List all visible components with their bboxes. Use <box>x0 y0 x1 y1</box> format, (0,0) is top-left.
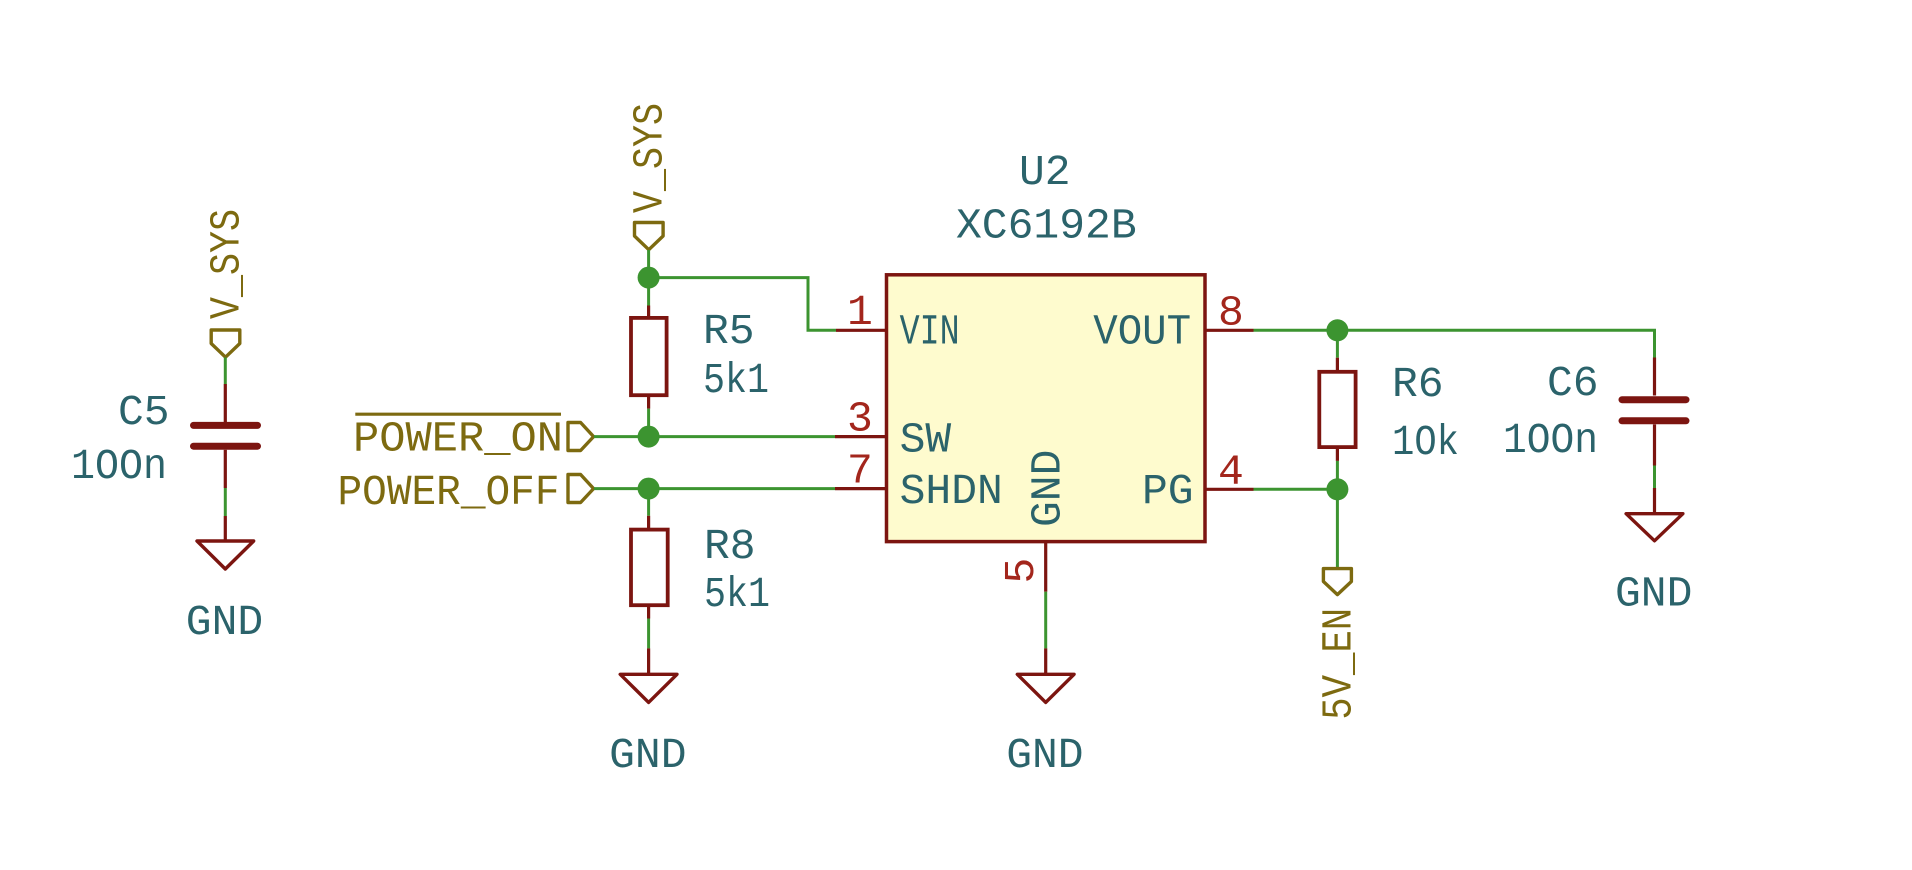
wire R6 to PG rail <box>1336 461 1339 489</box>
wire POWER_ON to SW pin <box>594 435 835 438</box>
junction at V_SYS/R5 <box>638 267 660 289</box>
wire POWER_OFF to SHDN pin <box>594 487 835 490</box>
junction at POWER_OFF/R8 <box>638 478 660 500</box>
junction at PG/R6 <box>1326 478 1348 500</box>
svg-text:5k1: 5k1 <box>704 570 770 619</box>
svg-text:V_SYS: V_SYS <box>202 209 251 319</box>
pin number 4 <box>1218 448 1244 497</box>
value 100n (C6) <box>1503 416 1598 465</box>
net label V_SYS (left) <box>202 209 251 319</box>
svg-text:GND: GND <box>186 598 263 647</box>
net label POWER_OFF <box>338 468 560 517</box>
svg-text:C5: C5 <box>118 388 170 437</box>
ground symbol (C5) <box>197 516 254 569</box>
svg-text:POWER_OFF: POWER_OFF <box>338 468 560 517</box>
svg-text:VOUT: VOUT <box>1093 307 1191 356</box>
ground symbol (C6) <box>1626 488 1683 541</box>
svg-text:5k1: 5k1 <box>703 356 769 405</box>
junction at POWER_ON/R5 <box>638 426 660 448</box>
pin name VOUT <box>1093 307 1191 356</box>
pin number 8 <box>1218 289 1244 338</box>
pin 8 VOUT stub <box>1205 329 1254 332</box>
net flag POWER_OFF <box>568 475 594 503</box>
pin number 7 <box>847 446 873 495</box>
text GND (R8) <box>609 731 686 780</box>
overbar POWER_ON <box>355 413 561 416</box>
pin 1 VIN stub <box>836 329 887 332</box>
value 100n (C5) <box>71 442 167 491</box>
wire junction to 5V_EN flag <box>1336 489 1339 568</box>
wire V_SYS flag to C5 <box>224 358 227 385</box>
text GND (C6) <box>1615 570 1692 619</box>
svg-text:PG: PG <box>1142 467 1194 516</box>
wire junction to R6 <box>1336 330 1339 357</box>
capacitor C5 <box>194 384 258 488</box>
svg-text:1Ok: 1Ok <box>1392 418 1459 467</box>
net flag V_SYS (middle) <box>635 223 664 250</box>
pin name PG <box>1142 467 1194 516</box>
net label 5V_EN <box>1315 608 1364 720</box>
net label V_SYS (middle) <box>626 103 675 213</box>
value 5k1 (R8) <box>704 570 770 619</box>
svg-text:1: 1 <box>847 288 873 337</box>
wire C5 to GND <box>224 488 227 516</box>
svg-text:U2: U2 <box>1019 148 1071 197</box>
svg-text:R6: R6 <box>1392 360 1444 409</box>
svg-text:5: 5 <box>997 558 1046 584</box>
svg-text:R5: R5 <box>703 307 755 356</box>
svg-text:3: 3 <box>847 394 873 443</box>
net label POWER_ON <box>353 414 563 463</box>
ground symbol (R8) <box>620 648 677 702</box>
svg-text:4: 4 <box>1218 448 1244 497</box>
pin number 3 <box>847 394 873 443</box>
wire R5 to POWER_ON rail <box>647 409 650 437</box>
svg-text:VIN: VIN <box>900 307 960 356</box>
pin 5 GND stub <box>1044 542 1047 592</box>
value 5k1 (R5) <box>703 356 769 405</box>
net flag 5V_EN <box>1323 569 1351 595</box>
pin 7 SHDN stub <box>835 487 887 490</box>
svg-text:SW: SW <box>900 416 952 465</box>
label C6 <box>1547 359 1599 408</box>
pin 4 PG stub <box>1205 488 1254 491</box>
wire junction to pin1 corner <box>649 278 836 331</box>
label C5 <box>118 388 170 437</box>
svg-text:R8: R8 <box>704 522 756 571</box>
svg-text:1OOn: 1OOn <box>71 442 167 491</box>
capacitor C6 <box>1622 358 1686 466</box>
resistor R8 <box>631 516 668 619</box>
svg-text:XC6192B: XC6192B <box>956 202 1137 251</box>
junction at VOUT/R6 <box>1326 319 1348 341</box>
net flag POWER_ON <box>568 423 594 451</box>
pin name SHDN <box>900 467 1003 516</box>
text GND (pin5) <box>1006 731 1083 780</box>
label U2 <box>1019 148 1071 197</box>
svg-text:GND: GND <box>609 731 686 780</box>
wire VOUT to C6 <box>1254 330 1655 357</box>
svg-text:GND: GND <box>1006 731 1083 780</box>
svg-text:GND: GND <box>1615 570 1692 619</box>
wire pin5 to GND <box>1044 592 1047 649</box>
pin number 1 <box>847 288 873 337</box>
wire R8 to GND <box>647 619 650 649</box>
resistor R6 <box>1319 358 1355 461</box>
svg-text:GND: GND <box>1023 450 1072 527</box>
pin name SW <box>900 416 952 465</box>
svg-text:1OOn: 1OOn <box>1503 416 1598 465</box>
wire C6 to GND <box>1653 466 1656 489</box>
resistor R5 <box>631 306 667 409</box>
wire pin4 to R6 junction <box>1254 488 1338 491</box>
svg-text:SHDN: SHDN <box>900 467 1003 516</box>
net flag V_SYS (left) <box>211 330 240 357</box>
pin name VIN <box>900 307 960 356</box>
IC U2 XC6192B body <box>887 275 1206 542</box>
value 10k (R6) <box>1392 418 1459 467</box>
value XC6192B <box>956 202 1137 251</box>
label R6 <box>1392 360 1444 409</box>
svg-text:POWER_ON: POWER_ON <box>353 414 563 463</box>
svg-text:5V_EN: 5V_EN <box>1315 608 1364 720</box>
svg-text:7: 7 <box>847 446 873 495</box>
pin name GND (rotated) <box>1023 450 1072 527</box>
svg-text:V_SYS: V_SYS <box>626 103 675 213</box>
wire junction to R8 <box>647 489 650 516</box>
wire V_SYS flag down to R5 <box>647 250 650 306</box>
svg-text:8: 8 <box>1218 289 1244 338</box>
pin 3 SW stub <box>835 435 887 438</box>
label R5 <box>703 307 755 356</box>
text GND (C5) <box>186 598 263 647</box>
label R8 <box>704 522 756 571</box>
ground symbol (pin5) <box>1017 648 1074 702</box>
svg-text:C6: C6 <box>1547 359 1599 408</box>
pin number 5 (rotated) <box>997 558 1046 584</box>
